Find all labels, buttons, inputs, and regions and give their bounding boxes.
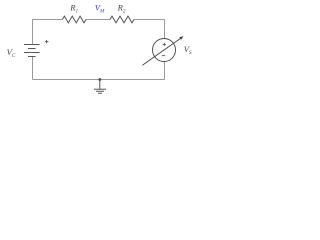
svg-text:R1: R1 <box>69 3 78 15</box>
ground <box>94 80 106 94</box>
source VS circle <box>153 39 176 62</box>
source plus sign <box>163 43 166 46</box>
wire <box>33 20 165 80</box>
resistor R1 <box>62 16 86 23</box>
ground junction dot <box>98 78 101 81</box>
battery VC <box>24 45 40 57</box>
svg-text:VS: VS <box>184 44 192 56</box>
svg-text:VM: VM <box>95 3 105 15</box>
resistor R2 <box>110 16 134 23</box>
svg-text:VC: VC <box>7 47 16 59</box>
source arrowhead <box>179 36 183 40</box>
battery plus sign <box>45 40 49 43</box>
svg-text:R2: R2 <box>117 3 126 15</box>
source minus sign <box>162 55 165 57</box>
source arrow <box>142 39 180 66</box>
